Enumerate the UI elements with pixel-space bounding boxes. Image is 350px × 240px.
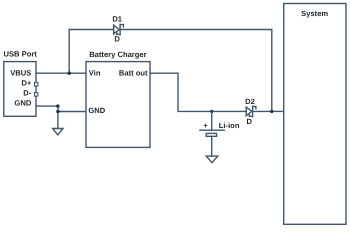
wire top to D1 anode [69, 29, 114, 31]
junction system node [270, 110, 273, 113]
wire vertical VBUS node to D1 [68, 30, 70, 74]
svg-text:USB Port: USB Port [4, 49, 38, 58]
diode D2 [246, 106, 256, 116]
svg-text:Vin: Vin [89, 69, 101, 78]
ground symbol (USB) [53, 129, 63, 135]
wire battery to ground [211, 137, 213, 156]
svg-text:D+: D+ [21, 78, 31, 87]
svg-text:D2: D2 [245, 97, 255, 106]
svg-text:D-: D- [23, 88, 31, 97]
svg-text:System: System [301, 9, 328, 18]
wire battery drop [211, 111, 213, 130]
svg-text:Batt out: Batt out [119, 69, 148, 78]
svg-text:+: + [203, 121, 208, 130]
svg-text:Li-ion: Li-ion [219, 121, 240, 130]
battery Li-ion plates [200, 130, 224, 136]
USB Port box [4, 62, 36, 117]
svg-text:Battery Charger: Battery Charger [89, 50, 146, 59]
pin D+ terminal [35, 83, 38, 86]
wire VBUS to Vin [36, 72, 86, 74]
pin D- terminal [35, 93, 38, 96]
wire corner down to system node [271, 30, 273, 112]
wire GND node to charger GND [58, 111, 86, 113]
wire GND node vertical [57, 106, 59, 128]
junction GND node lower [56, 110, 59, 113]
wire Batt out [150, 73, 246, 111]
svg-text:GND: GND [14, 99, 31, 108]
svg-text:D1: D1 [112, 15, 122, 24]
svg-text:D: D [247, 117, 253, 126]
wire D1 cathode to corner [121, 29, 272, 31]
svg-text:VBUS: VBUS [10, 68, 31, 77]
junction VBUS node [68, 72, 71, 75]
wire D2 cathode to System [253, 110, 284, 112]
Battery Charger box [86, 62, 150, 148]
junction battery tap [210, 110, 213, 113]
svg-text:GND: GND [88, 106, 105, 115]
wire USB GND out [36, 105, 58, 107]
diode D1 [114, 24, 124, 34]
ground symbol (battery) [206, 156, 218, 163]
svg-text:D: D [114, 35, 120, 44]
junction GND node upper [56, 104, 59, 107]
System box [284, 4, 346, 225]
